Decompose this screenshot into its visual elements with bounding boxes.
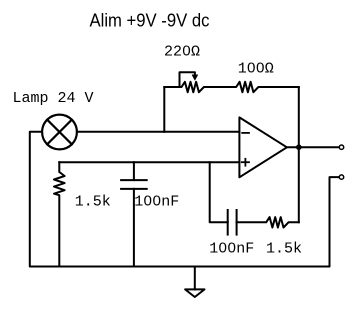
svg-text:220Ω: 220Ω [164, 43, 200, 60]
svg-text:Lamp 24 V: Lamp 24 V [13, 90, 94, 107]
svg-text:1.5k: 1.5k [75, 193, 111, 210]
svg-text:1.5k: 1.5k [266, 241, 302, 258]
svg-text:100Ω: 100Ω [238, 60, 274, 77]
svg-text:Alim +9V -9V dc: Alim +9V -9V dc [90, 11, 210, 31]
